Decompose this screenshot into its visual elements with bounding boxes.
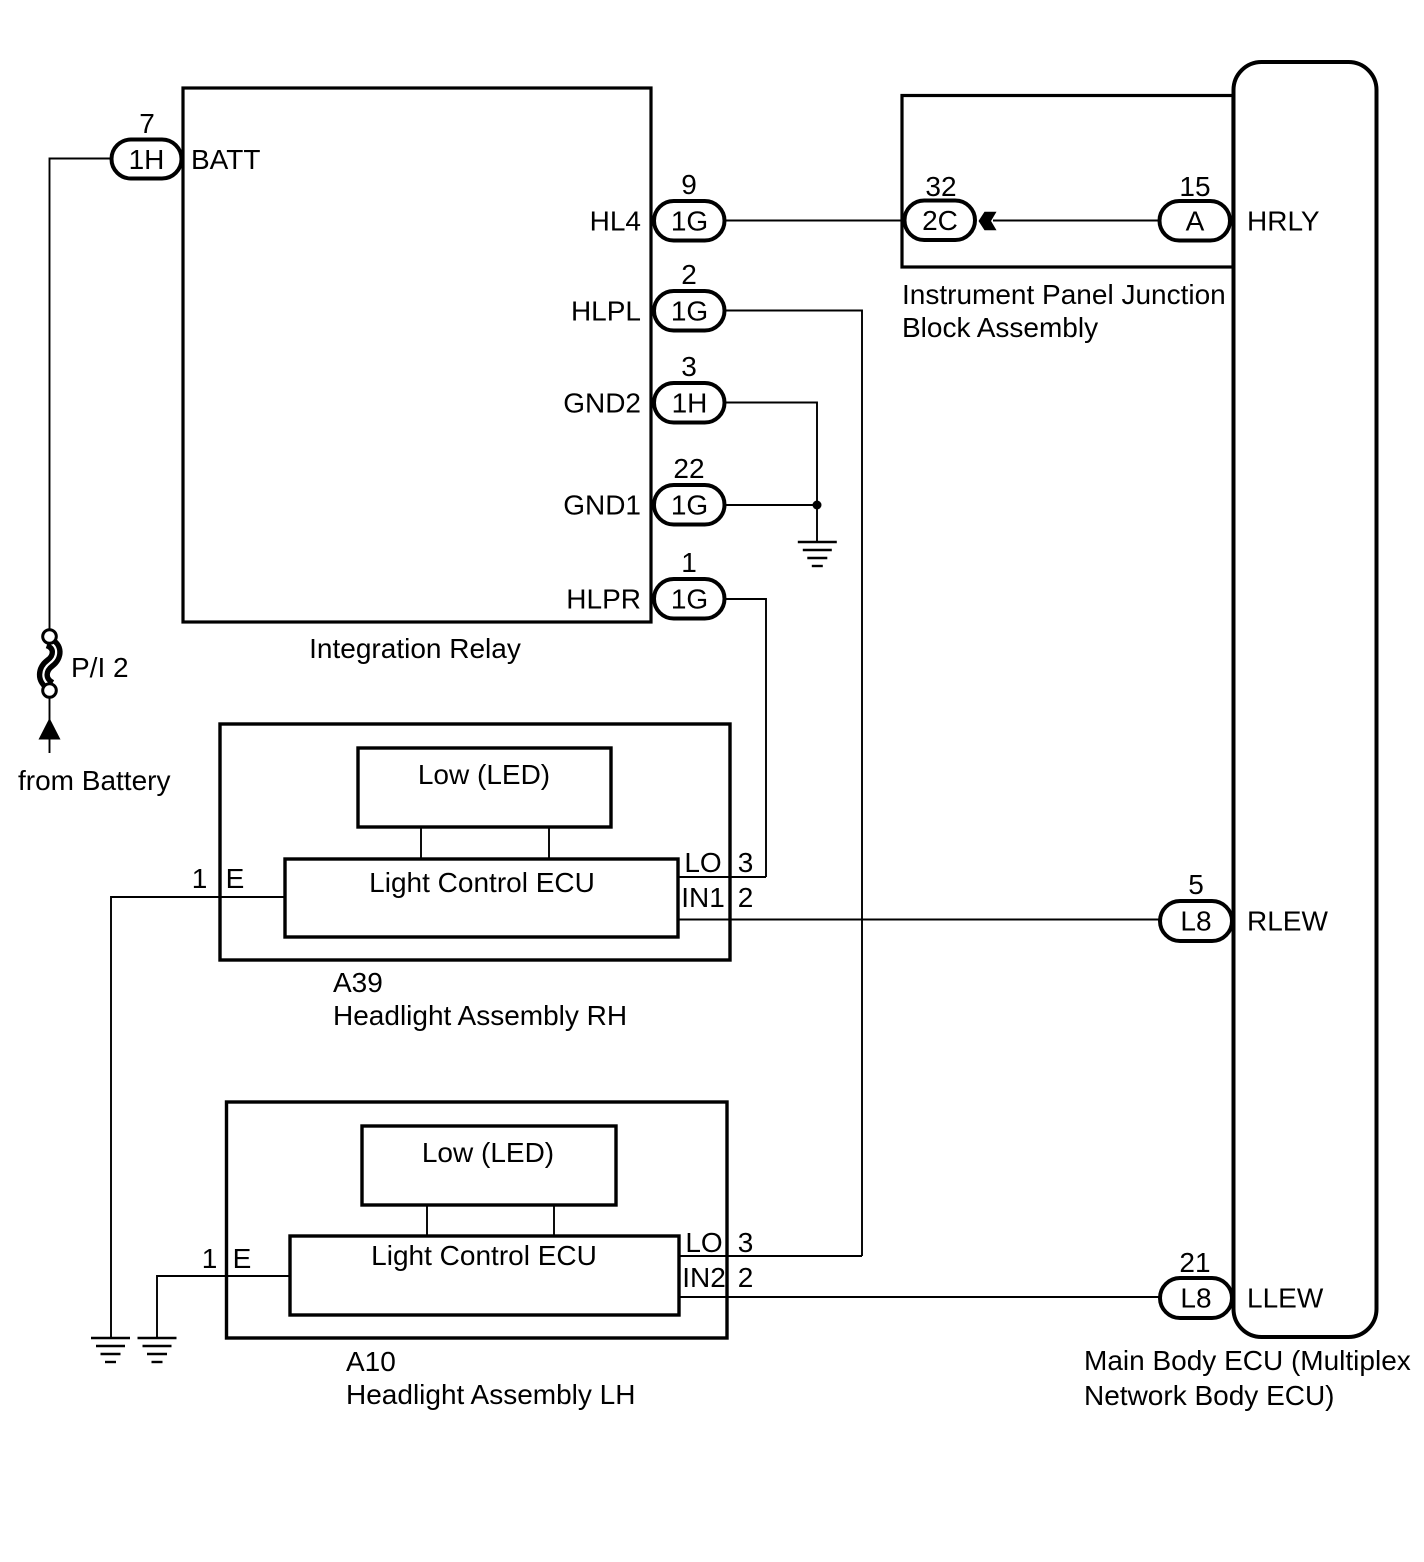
svg-text:1H: 1H: [129, 144, 165, 175]
svg-text:A: A: [1186, 206, 1205, 237]
svg-text:21: 21: [1179, 1247, 1210, 1278]
svg-text:Network Body ECU): Network Body ECU): [1084, 1380, 1335, 1411]
svg-text:from Battery: from Battery: [18, 765, 170, 796]
Light Control ECU box RH: [285, 859, 678, 937]
Low (LED) box RH: [358, 748, 611, 827]
svg-text:1: 1: [202, 1243, 218, 1274]
connector 1G (pin 22, GND1): [654, 485, 725, 525]
svg-text:Main Body ECU (Multiplex: Main Body ECU (Multiplex: [1084, 1345, 1411, 1376]
ground (integration relay GND): [798, 542, 837, 566]
arrowhead into 2C: [979, 212, 997, 230]
svg-text:2C: 2C: [922, 205, 958, 236]
svg-text:22: 22: [673, 453, 704, 484]
connector 1G (pin 1, HLPR): [654, 579, 725, 619]
svg-text:A39: A39: [333, 967, 383, 998]
junction node: [813, 501, 822, 510]
svg-text:P/I 2: P/I 2: [71, 652, 129, 683]
svg-text:GND2: GND2: [563, 388, 641, 419]
wire A to arrowhead: [993, 220, 1159, 222]
pin IN2 2 labels LH: [682, 1262, 753, 1293]
A10 label: [346, 1346, 635, 1410]
wire from 1H to battery splice: [50, 159, 112, 631]
Headlight Assembly LH box: [227, 1102, 728, 1338]
LED-ECU link wires LH: [426, 1205, 428, 1236]
wire RH IN1 to RLEW: [678, 919, 1160, 921]
svg-text:LO: LO: [685, 1227, 722, 1258]
svg-text:2: 2: [738, 1262, 754, 1293]
wire HL4 to 2C: [725, 220, 904, 222]
LED-ECU link wires RH: [420, 827, 422, 859]
connector 1G (pin 2, HLPL): [654, 291, 725, 331]
connector 1H (pin 7, BATT): [112, 140, 182, 179]
pin 1 E labels RH: [192, 863, 245, 894]
label Instrument Panel Junction Block Assembly: [902, 279, 1226, 343]
svg-text:5: 5: [1188, 869, 1204, 900]
wire RH LO: [678, 876, 766, 878]
Main Body ECU rounded box: [1234, 62, 1377, 1337]
Light Control ECU box LH: [290, 1236, 679, 1315]
svg-text:Low (LED): Low (LED): [422, 1137, 554, 1168]
svg-text:Integration Relay: Integration Relay: [309, 633, 521, 664]
wire GND1 to ground riser: [725, 504, 818, 506]
svg-text:3: 3: [738, 847, 754, 878]
svg-text:Headlight Assembly LH: Headlight Assembly LH: [346, 1379, 635, 1410]
svg-text:2: 2: [738, 882, 754, 913]
Integration Relay box: [183, 88, 651, 622]
connector 1G (pin 9, HL4): [654, 201, 725, 241]
from Battery arrow: [39, 718, 61, 753]
wire junction to ground: [816, 505, 818, 542]
svg-text:IN2: IN2: [682, 1262, 726, 1293]
svg-text:3: 3: [738, 1227, 754, 1258]
svg-text:Instrument Panel Junction: Instrument Panel Junction: [902, 279, 1226, 310]
svg-text:1: 1: [192, 863, 208, 894]
pin LO 3 labels RH: [684, 847, 753, 878]
svg-text:E: E: [226, 863, 245, 894]
svg-text:Headlight Assembly RH: Headlight Assembly RH: [333, 1000, 627, 1031]
wire HLPL to LH LO riser: [725, 311, 863, 1257]
svg-text:1G: 1G: [671, 584, 708, 615]
svg-text:L8: L8: [1180, 906, 1211, 937]
connector 2C (pin 32): [905, 201, 976, 241]
svg-text:1: 1: [681, 547, 697, 578]
svg-text:1G: 1G: [671, 490, 708, 521]
Low (LED) box LH: [362, 1126, 616, 1205]
ground (LH E): [138, 1338, 177, 1362]
connector L8 (pin 5, RLEW): [1160, 901, 1232, 941]
svg-text:15: 15: [1179, 171, 1210, 202]
svg-text:LLEW: LLEW: [1247, 1283, 1324, 1314]
Instrument Panel Junction Block box: [902, 96, 1233, 268]
svg-text:1G: 1G: [671, 206, 708, 237]
svg-text:E: E: [233, 1243, 252, 1274]
svg-text:Light Control ECU: Light Control ECU: [371, 1240, 597, 1271]
wire RH E to ground: [111, 897, 285, 1338]
A39 label: [333, 967, 627, 1031]
svg-text:GND1: GND1: [563, 490, 641, 521]
Headlight Assembly RH box: [220, 724, 730, 960]
svg-text:1G: 1G: [671, 296, 708, 327]
connector A (pin 15, HRLY): [1160, 201, 1231, 241]
svg-text:7: 7: [139, 108, 155, 139]
svg-text:Block Assembly: Block Assembly: [902, 312, 1098, 343]
pin 1 E labels LH: [202, 1243, 252, 1274]
svg-text:IN1: IN1: [681, 882, 725, 913]
wire LH E to ground: [157, 1276, 290, 1338]
svg-text:HL4: HL4: [590, 206, 641, 237]
svg-text:HLPR: HLPR: [566, 584, 641, 615]
svg-text:LO: LO: [684, 847, 721, 878]
wire below splice: [49, 697, 51, 722]
svg-text:HRLY: HRLY: [1247, 206, 1320, 237]
svg-text:Light Control ECU: Light Control ECU: [369, 867, 595, 898]
svg-text:HLPL: HLPL: [571, 296, 641, 327]
svg-text:BATT: BATT: [191, 144, 260, 175]
ground (RH E): [91, 1338, 130, 1362]
svg-text:L8: L8: [1180, 1283, 1211, 1314]
svg-text:1H: 1H: [672, 388, 708, 419]
connector 1H (pin 3, GND2): [654, 383, 725, 423]
svg-text:RLEW: RLEW: [1247, 906, 1328, 937]
svg-text:Low (LED): Low (LED): [418, 759, 550, 790]
svg-text:32: 32: [925, 171, 956, 202]
connector L8 (pin 21, LLEW): [1160, 1278, 1232, 1318]
wire GND2 to ground riser: [725, 403, 818, 506]
pin LO 3 labels LH: [685, 1227, 753, 1258]
label Main Body ECU: [1084, 1345, 1411, 1411]
svg-text:A10: A10: [346, 1346, 396, 1377]
wire LH IN2 to LLEW: [679, 1296, 1161, 1298]
svg-text:9: 9: [681, 169, 697, 200]
svg-text:3: 3: [681, 351, 697, 382]
wire LH LO to HLPL riser: [679, 1255, 862, 1257]
svg-text:2: 2: [681, 259, 697, 290]
pin IN1 2 labels RH: [681, 882, 753, 913]
splice P/I 2: [43, 630, 57, 698]
wire HLPR to RH LO riser: [725, 599, 767, 877]
